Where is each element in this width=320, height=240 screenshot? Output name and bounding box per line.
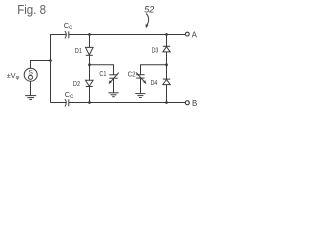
diode D2 [86,80,94,86]
wire C2 top to right branch [141,65,167,75]
wire D4 to bottom rail [166,85,168,103]
svg-text:52: 52 [144,5,154,15]
node D1-D2 midpoint [88,63,91,66]
svg-text:Fig. 8: Fig. 8 [17,2,46,17]
ground (source) [25,96,36,100]
wire C2 to ground [140,78,142,93]
wire midpoint to D4 [166,65,168,79]
wire bottom rail left of Cc [51,102,67,104]
terminal A [185,32,189,36]
wire top rail to D1 [89,35,91,48]
arrowhead C2 [143,80,146,84]
svg-text:B: B [192,99,197,108]
wire bottom rail right of Cc to terminal B [69,102,185,104]
wire top rail left of Cc [51,34,67,36]
ground (C2) [135,94,145,98]
node D1 top [88,33,91,36]
svg-text:D4: D4 [151,80,158,87]
node D4 bottom [165,101,168,104]
node source junction [49,59,52,62]
terminal B [185,101,189,105]
capacitor C2 (variable) [136,73,145,83]
wire midpoint to D2 [89,65,91,81]
capacitor C1 (variable) [109,73,118,83]
svg-text:C2: C2 [128,72,136,79]
wire midpoint to C1 [90,65,114,75]
wire C1 to ground [113,78,115,92]
svg-text:D1: D1 [75,48,82,55]
ground (C1) [108,93,118,97]
wire top rail to D3 [166,35,168,47]
node D3-D4 midpoint [165,63,168,66]
node D2 bottom [88,101,91,104]
capacitor Cc (top) [65,31,69,38]
capacitor Cc (bottom) [65,99,69,106]
arrowhead C1 [109,80,112,84]
node D3 top [165,33,168,36]
diode D4 [163,79,170,85]
wire D3 to midpoint [166,52,168,65]
svg-text:C1: C1 [99,71,106,78]
lead arrow 52 [146,14,148,26]
svg-text:D3: D3 [152,48,159,55]
wire top rail right of Cc to terminal A [69,34,185,36]
wire D1 to midpoint [89,55,91,65]
wire D2 to bottom rail [89,87,91,103]
wire source to left rail [31,61,51,69]
wire source to ground [30,81,32,95]
svg-text:A: A [192,30,198,39]
wire left rail [50,34,52,103]
svg-text:S: S [28,70,33,77]
svg-text:D2: D2 [73,81,80,88]
AC source +/-Vphi [24,68,37,81]
diode D3 [163,46,170,52]
diode D1 [86,47,94,55]
